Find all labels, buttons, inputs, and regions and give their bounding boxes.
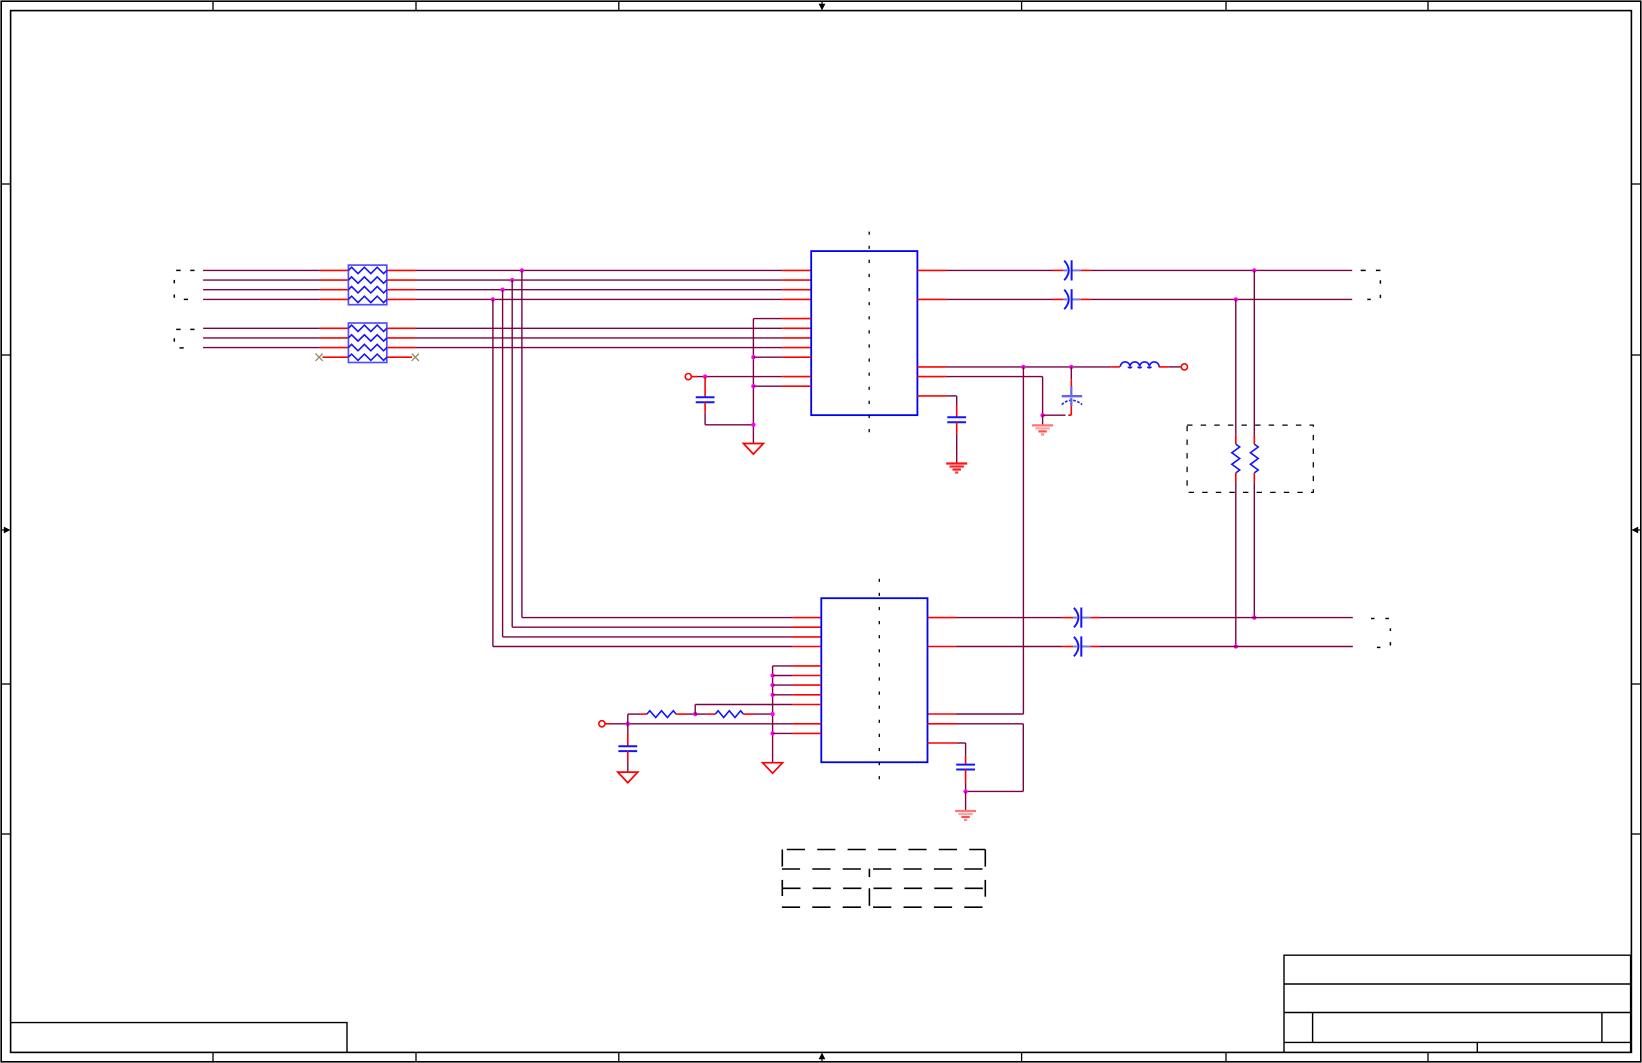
polarized capacitor C4	[1062, 367, 1083, 415]
output net O4 (y=646.5) with capacitor C8	[928, 636, 1353, 656]
terminal T1 and wire to U1 pin	[685, 374, 811, 380]
centerline of U1	[868, 232, 870, 439]
wire drop bus D4 (x=492.9)	[491, 297, 822, 646]
bus net U1-left (vertical x=753)	[753, 319, 811, 444]
net U2 right pin y=724 loop	[928, 724, 1024, 792]
net to inductor (y=367)	[917, 365, 1120, 369]
wire net B1 (row y=328.3)	[203, 327, 811, 329]
no-connect X right	[412, 354, 419, 361]
IC U1 (upper)	[811, 251, 917, 415]
no-connect stubs row y8	[323, 356, 413, 358]
R4 to bus junction	[743, 712, 774, 716]
capacitor C1 with return to bus	[696, 377, 756, 427]
terminal T3 and wire to U2 pin y=724	[599, 721, 821, 727]
resistor R2 (in dashed box) on net O2	[1232, 299, 1240, 648]
wire net A2 (row y=280.05)	[203, 279, 811, 281]
connector J4 (right mid, dashed outline)	[1371, 619, 1390, 648]
dashed option box around R1/R2	[1187, 425, 1313, 492]
IC U2 (lower)	[821, 598, 927, 762]
wire corner at x=628 to R3	[628, 714, 647, 724]
bus branch to U2 pin y=675.5	[770, 673, 821, 677]
resistor R4	[715, 711, 743, 718]
ground (triangle) below bus U2	[763, 763, 783, 774]
capacitor C5 on U1 pin y=396	[917, 396, 966, 463]
wire net A4 (row y=299.35)	[203, 298, 811, 300]
centerline of U2	[878, 579, 880, 787]
connector J2 (left, dashed outline)	[174, 329, 194, 348]
wire drop bus D3 (x=502.55)	[500, 288, 821, 637]
earth ground (bars) at x=1042	[1032, 425, 1053, 434]
resistor pack RP2	[348, 323, 386, 363]
node between R3/R4 with branch to U2 pin y=704	[676, 705, 821, 717]
bus branch to U2 pin y=685.15	[770, 683, 821, 687]
no-connect X left	[316, 354, 323, 361]
terminal T2 after inductor	[1159, 364, 1188, 370]
bottom-left revision box	[11, 1023, 347, 1052]
connector J3 (right top, dashed outline)	[1361, 270, 1381, 299]
wire drop bus D1 (x=521.85)	[520, 268, 822, 617]
bus net U2-left (vertical x=772.6)	[773, 666, 822, 763]
bus branch to U1 pin y=386.2	[751, 384, 811, 388]
output net O1 (y=270) with capacitor C2	[917, 260, 1352, 280]
resistor pack RP1	[348, 265, 386, 305]
wire net A1 (row y=270.4)	[203, 269, 811, 271]
wire net B3 (row y=347.6)	[203, 347, 811, 349]
dashed option boxes (bottom)	[782, 850, 985, 908]
net U1 pin y=376 to earth ground node	[917, 377, 1071, 425]
bus branch to U1 pin y=357.25	[751, 355, 811, 359]
bus branch to U2 pin y=694.8	[770, 693, 821, 697]
output net O2 (y=299) with capacitor C3	[917, 289, 1352, 309]
wire drop bus D2 (x=512.2)	[510, 278, 821, 627]
capacitor C9 on U2 pin y=743	[928, 743, 976, 811]
resistor R3	[647, 711, 676, 718]
output net O3 (y=617.6) with capacitor C7	[928, 608, 1353, 628]
capacitor C6 at terminal T3	[618, 724, 637, 772]
connector J1 (left, dashed outline)	[174, 270, 194, 299]
wire net A3 (row y=289.7)	[203, 289, 811, 291]
resistor R1 (in dashed box) on net O1	[1250, 270, 1258, 619]
ground (triangle) below C6	[618, 772, 638, 783]
power ground (bars) at x=956	[946, 464, 967, 473]
wire net B2 (row y=337.95)	[203, 337, 811, 339]
earth ground (bars) at x=965	[955, 811, 976, 820]
net U1(y=367) to U2 right pin y=714	[928, 367, 1024, 714]
bus branch to U2 pin y=733.4	[770, 731, 821, 735]
ground (triangle) below bus U1	[743, 444, 763, 455]
title block	[1284, 955, 1631, 1052]
inductor L1	[1120, 362, 1159, 368]
